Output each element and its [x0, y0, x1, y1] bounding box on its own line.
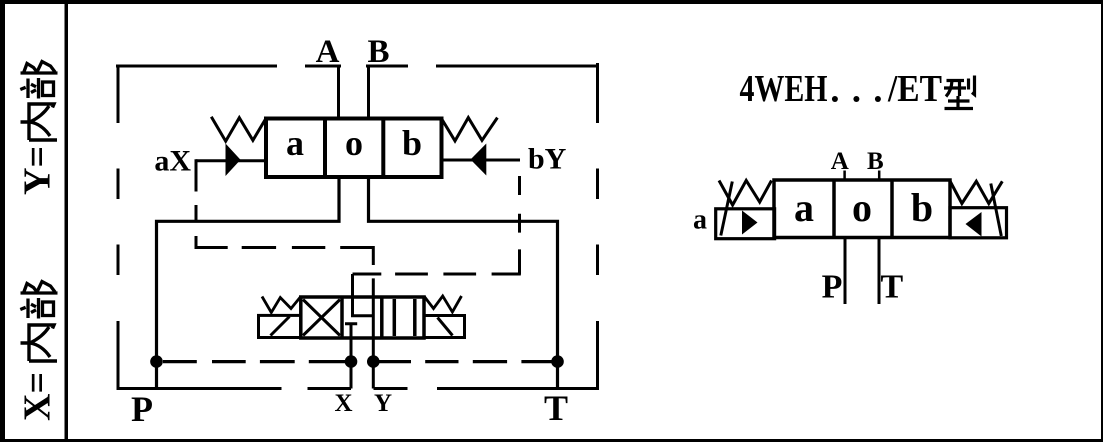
main valve left pilot triangle — [226, 144, 241, 177]
drain line P to X dashed — [163, 360, 348, 363]
main valve body boxes — [266, 119, 442, 178]
right valve left solenoid box — [716, 209, 775, 239]
junction dot X — [345, 355, 358, 368]
drain line Y to T dashed — [378, 360, 553, 363]
svg-text:P: P — [822, 269, 843, 306]
svg-text:A: A — [831, 148, 849, 175]
svg-text:B: B — [867, 148, 884, 175]
wire P side — [157, 177, 340, 389]
wire T side — [369, 177, 558, 389]
svg-text:o: o — [852, 185, 872, 230]
right valve left solenoid diagonal — [721, 182, 733, 236]
main valve right spring — [442, 118, 498, 141]
svg-text:X=: X= — [17, 372, 59, 421]
pilot line bY vertical dashed — [518, 176, 521, 275]
pilot valve blocked port tee — [345, 324, 357, 389]
wire bY to valve — [442, 159, 521, 162]
main valve right pilot triangle — [471, 144, 487, 176]
main valve left spring — [211, 117, 265, 141]
svg-text:Y=: Y= — [17, 146, 59, 195]
title block divider line — [65, 4, 69, 439]
right valve T line — [878, 238, 881, 305]
right valve left spring — [719, 181, 772, 206]
pilot line aX vertical (part solid, part dashed) — [195, 159, 198, 247]
wire B — [367, 66, 370, 119]
right valve right spring — [950, 181, 1002, 204]
svg-text:T: T — [544, 388, 568, 428]
title CJK char xing — [944, 76, 975, 109]
svg-text:B: B — [367, 34, 389, 70]
pilot valve left spring — [262, 297, 301, 313]
dashed enclosure box bottom edge — [117, 387, 597, 390]
junction dot Y — [367, 355, 380, 368]
right valve left solenoid triangle — [742, 211, 758, 235]
wire A — [337, 66, 340, 119]
right valve body boxes — [774, 180, 950, 238]
pilot valve left solenoid box — [259, 315, 301, 337]
svg-text:bY: bY — [528, 143, 567, 176]
rotated note Y=internal — [17, 62, 59, 196]
dashed enclosure box right edge — [596, 63, 599, 390]
svg-text:b: b — [402, 123, 422, 163]
pilot valve right spring — [424, 296, 461, 312]
rotated note X=internal — [17, 282, 59, 422]
junction dot P — [150, 355, 163, 368]
svg-text:/ET: /ET — [887, 68, 942, 110]
pilot valve internal elbow — [351, 314, 373, 317]
right valve right solenoid triangle — [966, 212, 982, 237]
dashed enclosure box left edge — [117, 65, 120, 391]
junction dot T — [551, 355, 564, 368]
wire aX to valve — [196, 159, 266, 162]
svg-text:Y: Y — [374, 390, 392, 417]
svg-text:o: o — [345, 123, 363, 163]
pilot valve A riser — [351, 274, 354, 316]
pilot line aX horizontal dashed — [195, 246, 374, 249]
svg-text:aX: aX — [154, 145, 191, 178]
svg-text:a: a — [794, 185, 814, 230]
svg-text:a: a — [693, 205, 707, 236]
dashed enclosure box top edge — [116, 65, 597, 68]
pilot valve B riser dashed then solid to Y — [372, 246, 375, 389]
svg-text:A: A — [316, 34, 340, 70]
svg-text:b: b — [911, 185, 933, 230]
right valve right solenoid box — [950, 208, 1007, 238]
pilot valve right position bars — [394, 299, 415, 336]
svg-text:T: T — [881, 269, 904, 306]
right valve P line — [844, 238, 847, 305]
pilot valve body — [301, 297, 424, 338]
right valve B stub — [878, 171, 881, 181]
svg-text:4WEH: 4WEH — [740, 68, 828, 110]
svg-text:P: P — [131, 389, 153, 429]
pilot line bY horizontal dashed — [353, 273, 521, 276]
pilot valve right solenoid box — [424, 316, 465, 338]
pilot valve crossed arrows box — [303, 300, 340, 336]
right valve A stub — [843, 171, 846, 181]
svg-text:X: X — [334, 390, 352, 417]
svg-text:a: a — [286, 123, 304, 163]
right valve right solenoid diagonal — [991, 184, 1002, 237]
